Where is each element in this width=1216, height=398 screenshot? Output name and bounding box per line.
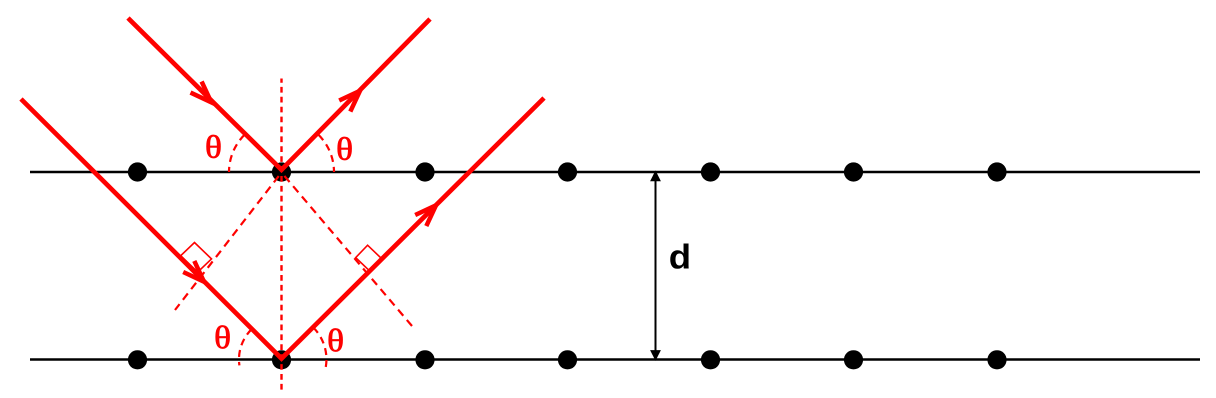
atom dots bottom row <box>128 350 1007 369</box>
lattice plane line 1 (top) <box>30 171 1200 173</box>
arrowhead upper incident <box>191 82 212 103</box>
normal dashed line through atoms <box>280 79 282 392</box>
svg-text:θ: θ <box>336 132 353 167</box>
angle arc bottom left <box>239 329 252 365</box>
angle arc top left <box>229 135 244 172</box>
construction dashed line left (perpendicular to lower incident ray) <box>175 176 279 310</box>
construction dashed line right (perpendicular to lower reflected ray) <box>284 176 412 326</box>
angle arc top right <box>319 135 334 172</box>
svg-text:θ: θ <box>214 321 231 356</box>
interplanar spacing arrow d (double headed) <box>650 170 661 361</box>
atom dots top row <box>128 162 1007 181</box>
incident and reflected rays upper beam <box>128 18 430 170</box>
svg-text:d: d <box>669 238 691 277</box>
incident and reflected rays lower beam <box>21 98 544 359</box>
arrowhead lower reflected <box>415 205 436 226</box>
svg-text:θ: θ <box>327 324 344 359</box>
right angle marker right <box>356 245 382 271</box>
arrowhead upper reflected <box>339 91 360 112</box>
arrowhead lower incident <box>183 261 204 282</box>
right angle marker left <box>181 243 212 273</box>
lattice plane line 2 (bottom) <box>30 358 1200 360</box>
angle arc bottom right <box>313 328 326 370</box>
svg-text:θ: θ <box>205 130 222 165</box>
